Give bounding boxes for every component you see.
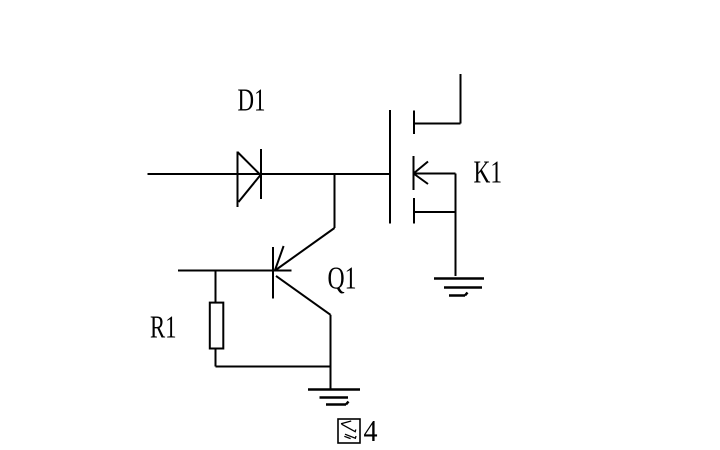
- wire main horizontal input net: [148, 173, 391, 175]
- wire R1 top: [215, 271, 217, 303]
- wire Q1 base: [178, 270, 292, 272]
- ground under Q1: [308, 390, 360, 405]
- svg-text:D1: D1: [238, 83, 266, 118]
- wire to ground under Q1: [330, 367, 332, 390]
- wire bottom net: [216, 366, 331, 368]
- wire Q1 emitter down: [330, 315, 332, 367]
- svg-text:Q1: Q1: [328, 261, 357, 296]
- wire junction node to Q1: [275, 174, 335, 271]
- wire R1 bottom: [215, 349, 217, 367]
- wire K1 source to ground: [455, 174, 457, 277]
- svg-text:4: 4: [364, 413, 378, 448]
- resistor R1: [210, 303, 224, 349]
- transistor K1 (MOSFET): [390, 74, 461, 224]
- transistor Q1: [273, 246, 331, 315]
- label figure caption 图4: [338, 413, 378, 448]
- svg-text:R1: R1: [150, 310, 177, 345]
- diode D1: [238, 149, 262, 207]
- ground under K1: [434, 279, 484, 296]
- svg-text:K1: K1: [474, 155, 503, 190]
